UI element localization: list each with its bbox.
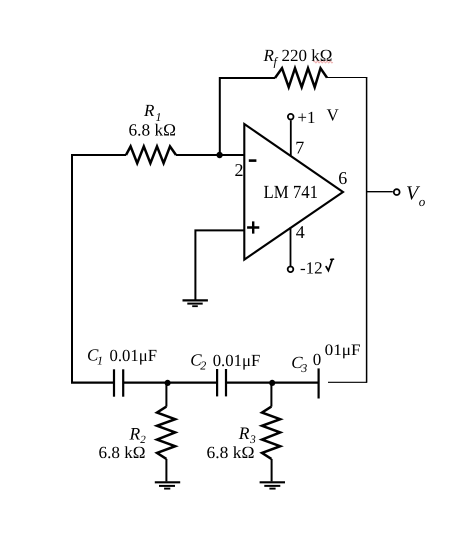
wire: thin top wire right of Rf bbox=[327, 77, 367, 79]
terminal circle output bbox=[394, 189, 400, 195]
capacitor C2 plates bbox=[217, 369, 226, 396]
node: junction dot at inverting input bbox=[216, 152, 222, 158]
spellcheck squiggle under kOhm bbox=[314, 61, 333, 63]
wire: R1 left horizontal segment bbox=[71, 154, 126, 156]
terminal circle -12V supply bbox=[288, 267, 294, 273]
capacitor C1 plates bbox=[114, 369, 123, 396]
op-amp minus input symbol bbox=[249, 159, 257, 162]
resistor R2 zigzag bbox=[157, 407, 175, 459]
ground (R3) bbox=[260, 482, 285, 488]
svg-text:0: 0 bbox=[313, 350, 322, 369]
wire: R1 right segment to inverting input bbox=[176, 154, 244, 156]
ground (R2) bbox=[155, 482, 180, 488]
svg-text:R: R bbox=[143, 101, 155, 120]
wire: pin 4 supply stub bbox=[290, 227, 292, 266]
label C1 bbox=[87, 346, 103, 368]
wire: thin bottom stub C3 to bus bbox=[328, 381, 367, 383]
wire: bottom segment C1 to C2 bbox=[123, 382, 217, 384]
label Rf bbox=[263, 46, 279, 69]
svg-text:2: 2 bbox=[200, 359, 206, 373]
svg-text:6.8 kΩ: 6.8 kΩ bbox=[129, 121, 177, 140]
wire: R2 vertical bottom bbox=[165, 459, 167, 481]
svg-text:2: 2 bbox=[235, 160, 244, 180]
wire: R3 vertical top bbox=[270, 383, 272, 407]
svg-text:o: o bbox=[419, 194, 426, 209]
wire: R3 vertical bottom bbox=[271, 459, 273, 481]
wire: right vertical bus bbox=[366, 77, 368, 383]
wire: pin 7 supply stub bbox=[290, 120, 292, 156]
svg-text:4: 4 bbox=[296, 222, 305, 242]
svg-text:0.01μF: 0.01μF bbox=[110, 346, 158, 365]
svg-text:-12: -12 bbox=[300, 259, 323, 278]
wire: output bbox=[367, 191, 393, 193]
svg-text:6.8 kΩ: 6.8 kΩ bbox=[207, 443, 255, 462]
wire: bottom segment C2 to C3 bbox=[226, 382, 319, 384]
resistor Rf zigzag bbox=[275, 68, 327, 87]
svg-text:3: 3 bbox=[300, 361, 307, 375]
label C2 bbox=[190, 351, 206, 373]
node: junction dot C2/R3 bbox=[269, 380, 275, 386]
resistor R3 zigzag bbox=[262, 407, 280, 459]
label Vo bbox=[406, 183, 426, 210]
terminal circle +V supply bbox=[288, 114, 294, 120]
label R3 bbox=[238, 423, 256, 446]
svg-text:+1: +1 bbox=[297, 108, 315, 127]
svg-text:R: R bbox=[129, 423, 141, 443]
wire: bottom left segment bbox=[71, 382, 114, 384]
svg-text:LM 741: LM 741 bbox=[264, 183, 319, 203]
node: junction dot C1/R2 bbox=[165, 380, 171, 386]
label check V mark bbox=[326, 259, 333, 270]
wire: vertical feedback riser and top wire to Rf bbox=[220, 78, 275, 155]
svg-text:R: R bbox=[238, 423, 250, 443]
capacitor C3 plate bbox=[318, 368, 320, 398]
op-amp U1 triangle bbox=[244, 124, 343, 260]
svg-text:6: 6 bbox=[338, 168, 347, 188]
svg-text:01μF: 01μF bbox=[325, 342, 361, 359]
wire: R2 vertical top bbox=[165, 383, 167, 407]
label C3 bbox=[291, 350, 321, 375]
ground (op-amp + input) bbox=[183, 300, 208, 306]
svg-text:7: 7 bbox=[295, 138, 304, 158]
op-amp plus input symbol bbox=[247, 221, 259, 233]
label R1 bbox=[143, 101, 162, 124]
wire: non-inverting input to ground bbox=[195, 230, 243, 299]
svg-text:1: 1 bbox=[97, 354, 103, 368]
svg-text:0.01μF: 0.01μF bbox=[213, 351, 261, 370]
svg-text:V: V bbox=[327, 106, 340, 125]
label R2 bbox=[129, 423, 147, 446]
wire: left vertical from R1 to C1 bbox=[71, 155, 73, 383]
svg-text:6.8 kΩ: 6.8 kΩ bbox=[99, 443, 146, 462]
resistor R1 zigzag bbox=[126, 146, 176, 163]
